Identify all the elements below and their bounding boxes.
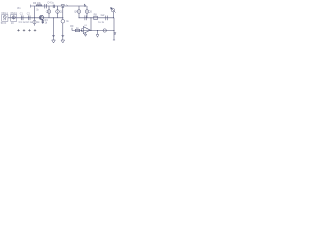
svg-text:R9: R9 [70, 25, 74, 28]
transistor Q1 [39, 15, 43, 19]
tick arrow x66 [67, 5, 68, 6]
source V2 branch x62.5 [62, 8, 64, 18]
battery bars V4 [61, 35, 64, 36]
port box P2 [11, 15, 17, 22]
B2 arrow [57, 10, 59, 12]
source circle B2 [56, 10, 60, 14]
inductor L1 (top rail) [36, 5, 42, 7]
svg-text:1u 1u: 1u 1u [98, 22, 104, 24]
plus mark c [28, 29, 30, 31]
ground G3 flag [96, 35, 99, 38]
svg-text:1u2: 1u2 [100, 14, 105, 17]
capacitor C7 on rail [106, 16, 108, 21]
svg-text:C4 1u: C4 1u [47, 2, 54, 5]
branch arrow I3 [78, 10, 80, 12]
capacitor C4 (top rail bars) [45, 4, 47, 8]
diode D1 (pointing down) [61, 5, 64, 8]
svg-text:C1: C1 [20, 13, 24, 15]
branch arrow I4 [86, 10, 88, 12]
svg-text:C2: C2 [27, 13, 31, 15]
plus mark a [17, 29, 19, 31]
op-amp U1 [83, 27, 90, 34]
junction dot x34.5 [34, 17, 35, 18]
wire via top to mid [34, 6, 36, 18]
diode bar [62, 7, 65, 9]
ground G1 [52, 40, 56, 43]
source I2 below node (x34.5) [34, 18, 36, 21]
source V1 circle [3, 16, 6, 19]
resistor R9 (lower line) [75, 29, 79, 31]
svg-text:XFG1: XFG1 [1, 12, 8, 15]
svg-text:50 O: 50 O [1, 22, 6, 25]
capacitor C6 on rail [85, 15, 87, 20]
wire top rail [31, 5, 87, 7]
svg-text:1k: 1k [45, 22, 48, 25]
junction dot x32 [31, 16, 34, 19]
arrow end of top rail [84, 4, 86, 6]
I1 arrow mark [13, 15, 15, 19]
junction dot x91 [91, 17, 92, 18]
port circle P3 (output) [103, 29, 106, 32]
current source I3 branch x79 [78, 6, 80, 18]
op-amp input stubs [82, 29, 84, 32]
junction wire down x53.5 [53, 18, 55, 40]
wire mid rail left [8, 17, 63, 19]
battery bars V3 [52, 35, 55, 36]
svg-text:Q3: Q3 [60, 11, 64, 14]
flag right of vertical [114, 33, 116, 35]
svg-text:10: 10 [11, 22, 14, 25]
tick at rail start [30, 5, 32, 8]
svg-text:1k: 1k [66, 20, 69, 23]
component box U2 on rail [94, 16, 98, 19]
capacitor C5 bars (top rail) [53, 5, 54, 8]
svg-text:1k: 1k [36, 8, 39, 11]
svg-text:R3 10k: R3 10k [33, 2, 42, 5]
svg-text:1k: 1k [37, 21, 40, 24]
junction dot lower line [81, 30, 82, 31]
wire probe down [113, 12, 115, 18]
emitter element [42, 21, 44, 23]
feedback wire x91 down [90, 18, 92, 31]
svg-text:XSC1: XSC1 [10, 12, 17, 15]
stub above lower line left [71, 28, 73, 31]
junction dot right lower [114, 30, 115, 31]
V1 sine mark [4, 16, 6, 19]
svg-text:Q5: Q5 [89, 11, 93, 14]
bottom bar right [113, 39, 115, 41]
op-amp ground flag [84, 34, 86, 36]
source I1 circle [12, 16, 15, 19]
svg-text:U1: U1 [84, 25, 88, 27]
wire right edge vertical [113, 18, 115, 40]
emitter wire down [42, 20, 44, 24]
branch B2 x57.5: wire [57, 6, 59, 18]
svg-text:C2 1u: C2 1u [26, 21, 33, 24]
probe circle (top right) [111, 9, 114, 12]
capacitor C2 (series) [29, 16, 31, 21]
current source I4 branch x87 [86, 6, 88, 18]
wire lower line [72, 30, 114, 32]
B1 arrow [48, 10, 50, 12]
branch B1 x49: wire [48, 6, 50, 18]
plus mark d [34, 29, 36, 31]
probe arrow [111, 8, 116, 13]
V1 pins [4, 19, 6, 21]
svg-text:Vin: Vin [17, 7, 21, 10]
wire mid rail right [79, 17, 114, 19]
plus mark b [23, 29, 25, 31]
capacitor C1 (series) [22, 16, 24, 21]
source circle B1 [47, 10, 51, 14]
junction + ground stub x97.5 [97, 30, 98, 31]
port box P1 (left input) [2, 15, 8, 22]
op-amp lower stub [85, 32, 87, 34]
junction dot output [91, 30, 92, 31]
ground G2 [61, 40, 65, 43]
I2 arrow [34, 21, 36, 23]
